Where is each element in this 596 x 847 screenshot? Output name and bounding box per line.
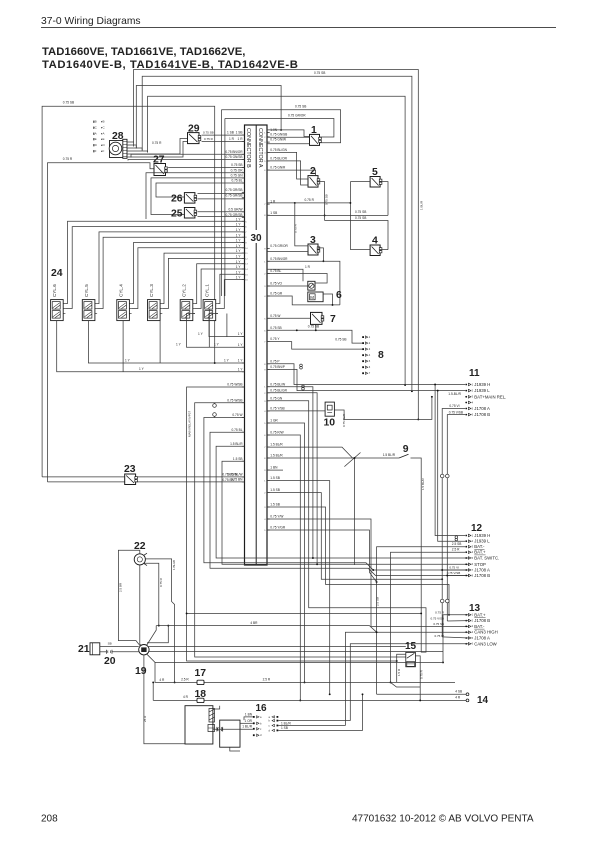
wire Y/SB to 10 [267, 410, 325, 412]
injector return wires 1 Y [209, 314, 245, 337]
pin 16 left 4 [253, 734, 255, 736]
svg-text:16: 16 [256, 703, 268, 714]
svg-text:TAD1660VE, TAD1661VE, TAD1662V: TAD1660VE, TAD1661VE, TAD1662VE, [42, 46, 245, 58]
wire GN down [267, 401, 426, 652]
wire to 5 from R bus [350, 181, 370, 183]
wire to 4 from R bus [350, 249, 370, 251]
pin 11-4 nc [465, 400, 473, 404]
svg-text:1 R: 1 R [238, 137, 244, 141]
pin 11-3 BAT+MAIN REL. [465, 394, 506, 399]
wire starter to relay 15 upper [148, 646, 406, 648]
svg-text:0.75 GR/SB: 0.75 GR/SB [225, 188, 242, 192]
injector cross links [159, 321, 161, 363]
wire 0.75 R X28 to fuse 29 [127, 142, 188, 158]
svg-text:J1708 A: J1708 A [474, 636, 490, 641]
svg-text:BAT+MAIN REL.: BAT+MAIN REL. [474, 394, 506, 399]
svg-text:1 SB: 1 SB [236, 131, 243, 135]
wire 1.5 SB c down [267, 507, 449, 615]
wire 0.75 BL [210, 432, 469, 575]
wire R bus vertical [349, 182, 351, 250]
svg-text:0.75 BL/GN: 0.75 BL/GN [270, 148, 287, 152]
svg-text:0.75 SB: 0.75 SB [324, 194, 328, 205]
pin 13-2 [465, 618, 490, 623]
svg-text:1.5 SB: 1.5 SB [233, 457, 243, 461]
wire starter to fuse18 [152, 682, 154, 700]
splice pair J1708 [440, 474, 444, 478]
svg-text:▸E: ▸E [101, 137, 105, 141]
svg-text:4 R: 4 R [183, 695, 189, 699]
twisted pair symbol upper [300, 364, 303, 367]
svg-text:M: M [310, 295, 314, 300]
wire 0.75 P to J1939 H [267, 364, 465, 385]
wire 1.5 BL/R down [216, 446, 469, 558]
wire Y/GR down [267, 530, 377, 582]
svg-text:1 BL/R: 1 BL/R [419, 200, 423, 210]
wire 1 BN stub [267, 469, 283, 471]
svg-text:0.75 R: 0.75 R [294, 223, 298, 233]
svg-text:0.75 V/SB: 0.75 V/SB [449, 410, 463, 414]
svg-text:BAT.+: BAT.+ [474, 550, 486, 555]
svg-text:24: 24 [51, 268, 63, 279]
svg-text:0.75 BL: 0.75 BL [232, 179, 243, 183]
svg-text:J1708 B: J1708 B [474, 412, 490, 417]
svg-text:CYL.1: CYL.1 [205, 284, 210, 297]
svg-text:1 SB: 1 SB [270, 211, 277, 215]
svg-text:1.5 BL/R: 1.5 BL/R [270, 443, 283, 447]
wire R/W down [267, 435, 300, 700]
wire 0.75 W [204, 418, 469, 571]
svg-text:0.75 R: 0.75 R [435, 611, 445, 615]
svg-text:CYL.3: CYL.3 [149, 284, 154, 297]
svg-text:1.5 BL/R: 1.5 BL/R [230, 442, 243, 446]
svg-text:0.75 R: 0.75 R [63, 157, 73, 161]
svg-text:0.75 BN: 0.75 BN [222, 478, 234, 482]
nested loop wire R3 to 1.0N [136, 86, 281, 149]
svg-text:▸A: ▸A [101, 131, 105, 135]
svg-text:0.75 GN/SB: 0.75 GN/SB [225, 155, 242, 159]
wire J1708B to 13 [447, 620, 469, 622]
svg-text:2.5 SB: 2.5 SB [452, 542, 462, 546]
connector A pin ticks and wire labels [264, 128, 288, 532]
svg-text:STOP: STOP [474, 562, 486, 567]
svg-text:CAN3 HIGH: CAN3 HIGH [474, 630, 497, 635]
wire 0.75 SB from 27 [168, 167, 244, 169]
svg-text:0.75 GN/R: 0.75 GN/R [270, 166, 286, 170]
svg-text:0.75 SB: 0.75 SB [63, 101, 74, 105]
svg-text:0.75 V/SB: 0.75 V/SB [430, 616, 444, 620]
nested loop wire R4 to J1939 H [148, 96, 406, 385]
svg-text:0.75 BL: 0.75 BL [232, 428, 243, 432]
svg-text:0.75 W/SB: 0.75 W/SB [227, 383, 242, 387]
svg-text:0.75 BN/GR: 0.75 BN/GR [270, 257, 288, 261]
svg-text:0.75 BL/OR: 0.75 BL/OR [270, 157, 287, 161]
svg-text:1.5 BL/R: 1.5 BL/R [383, 453, 396, 457]
svg-text:0.75 R: 0.75 R [152, 141, 162, 145]
wire GR/OR to 3 [267, 251, 308, 253]
svg-text:1 SB: 1 SB [281, 726, 288, 730]
wires 25 to connector [198, 211, 245, 213]
wire 0.75 BL to 6 [267, 274, 327, 284]
svg-text:J1939 L: J1939 L [474, 388, 490, 393]
wire BL/OR to 2 [267, 161, 308, 185]
wire 22 down to starter [140, 565, 142, 647]
svg-text:▮A: ▮A [93, 131, 97, 135]
svg-text:BAT.-: BAT.- [474, 544, 485, 549]
wire BL/GR down [267, 393, 317, 565]
svg-text:0.75 SB: 0.75 SB [355, 210, 366, 214]
svg-text:1.5 BL/R: 1.5 BL/R [270, 454, 283, 458]
wire 0.75 OR [146, 173, 245, 219]
wire from 7 bottom [315, 324, 317, 330]
svg-text:0.75 OR: 0.75 OR [231, 168, 244, 172]
svg-text:CYL.5: CYL.5 [84, 284, 89, 297]
pin 16 left 1 [253, 716, 255, 718]
inline connector pair [217, 727, 223, 732]
svg-text:0.75 VI: 0.75 VI [449, 404, 459, 408]
wire 1 GR down [267, 423, 305, 682]
wire 1.5 SB a down [267, 481, 330, 695]
pin 12-5 [465, 556, 499, 561]
svg-text:0.5 GR/W: 0.5 GR/W [229, 207, 243, 211]
svg-text:8: 8 [378, 350, 384, 361]
svg-text:17: 17 [195, 668, 207, 679]
wires heater internal [213, 706, 220, 709]
svg-text:1 BL/R: 1 BL/R [281, 721, 291, 725]
twist at 12 [455, 536, 458, 539]
svg-text:25: 25 [171, 209, 183, 220]
wire 0.75 BN/P to J1939 L [267, 369, 465, 390]
svg-text:J1939 H: J1939 H [474, 382, 490, 387]
wire BL/W down [267, 387, 313, 558]
wire 1.5 SB down [222, 461, 469, 564]
svg-text:4 BR: 4 BR [250, 621, 258, 625]
pin 16 left 3 [253, 728, 255, 730]
pin 11-1 J1939 H [465, 382, 490, 387]
header rule [41, 27, 556, 29]
wire 22 top housing [118, 550, 140, 646]
svg-text:1.5 BL/R: 1.5 BL/R [421, 477, 425, 490]
svg-text:2.5 BR: 2.5 BR [119, 582, 123, 592]
wire 1 SB bus [267, 214, 388, 216]
svg-text:J1708 B: J1708 B [474, 618, 490, 623]
nested loop wire R2 to J1939 L [142, 76, 412, 391]
x junction diagonals [344, 453, 360, 467]
pin 12-6 [465, 562, 486, 567]
svg-text:CONNECTOR A: CONNECTOR A [257, 128, 263, 168]
pin 11-2 J1939 L [465, 388, 490, 393]
svg-text:0.75 SB: 0.75 SB [270, 326, 281, 330]
svg-text:11: 11 [469, 368, 480, 379]
svg-text:MAIN RELAY/VP37: MAIN RELAY/VP37 [188, 411, 192, 437]
wires 16 left to heater relay [244, 717, 253, 720]
wire J1939 L drop to 12 [438, 391, 465, 542]
svg-text:1.5 SB: 1.5 SB [270, 476, 280, 480]
svg-text:0.75 BN/OR: 0.75 BN/OR [225, 150, 243, 154]
label 30 [247, 230, 265, 243]
wire from 3 right [318, 248, 323, 261]
svg-text:CYL.6: CYL.6 [52, 284, 57, 297]
svg-text:0.75 GN/W: 0.75 GN/W [270, 138, 286, 142]
svg-text:10: 10 [324, 418, 336, 429]
svg-text:▸B: ▸B [101, 120, 105, 124]
svg-text:CONNECTOR B: CONNECTOR B [245, 128, 251, 168]
wire starter right to 662 [147, 654, 444, 663]
svg-text:0.75 Y/GR: 0.75 Y/GR [270, 526, 286, 530]
pin 12-4 [465, 550, 486, 555]
svg-text:1 R: 1 R [229, 137, 235, 141]
pin 12-7 [465, 568, 490, 573]
preheater element [185, 706, 215, 744]
svg-text:1 BN: 1 BN [270, 466, 278, 470]
connector B pin ticks and wire labels [225, 131, 248, 482]
svg-text:1 BN: 1 BN [245, 713, 253, 717]
wire 0.75 W/SB to main relay [187, 387, 397, 661]
wire GN/R to 2 top [267, 170, 316, 176]
wires J1708 to 12 [442, 569, 465, 571]
wire 1.5 SB b down [267, 493, 442, 580]
wires 26 to connector [198, 193, 245, 195]
wires from X28 to loops [127, 141, 134, 143]
svg-text:0.75 P: 0.75 P [270, 359, 279, 363]
svg-text:▮E: ▮E [93, 137, 97, 141]
injector supply wires 1 Y [65, 221, 244, 308]
svg-text:0.75 BN/P: 0.75 BN/P [270, 365, 285, 369]
svg-text:0.75 R: 0.75 R [305, 198, 315, 202]
wire 4 SB to 14 [377, 693, 466, 695]
svg-text:0.75 SB: 0.75 SB [231, 163, 242, 167]
wire J1708 B continue [446, 478, 448, 621]
svg-text:2.5 R: 2.5 R [452, 547, 460, 551]
wire BN/GR [267, 261, 340, 305]
pin 12-1 [465, 533, 490, 538]
svg-text:1 R: 1 R [305, 265, 311, 269]
svg-text:0.75 GN/SB: 0.75 GN/SB [270, 133, 287, 137]
svg-text:BAT.-: BAT.- [474, 624, 485, 629]
wire 1.5 BL/R first [267, 447, 353, 458]
svg-text:0.75 SB: 0.75 SB [335, 337, 346, 341]
wire Y/W to 13 BAT- [267, 519, 469, 626]
pin 13-1 [465, 612, 486, 617]
svg-text:CYL.2: CYL.2 [182, 284, 187, 297]
wires to 1 [267, 130, 310, 137]
svg-text:0.75 R: 0.75 R [204, 137, 214, 141]
splice pair on W/SB [213, 404, 217, 408]
svg-text:1 GR: 1 GR [270, 419, 278, 423]
svg-text:0.75 GR: 0.75 GR [270, 292, 283, 296]
pin 13-5 [465, 636, 490, 641]
wire CAN3 LOW from 16 [350, 644, 469, 721]
pin 11-6 J1708 B [465, 412, 490, 417]
svg-text:20: 20 [104, 656, 116, 667]
relay 15 enclosure wire [391, 682, 421, 687]
svg-text:0.75 Y: 0.75 Y [270, 337, 280, 341]
svg-text:0.75 SB: 0.75 SB [203, 131, 214, 135]
wire 0.75 VI from 11 down [442, 409, 465, 475]
svg-text:0.75 GN: 0.75 GN [270, 396, 283, 400]
svg-text:1 BL/R: 1 BL/R [242, 725, 252, 729]
svg-text:0.75 SB: 0.75 SB [433, 622, 444, 626]
connector X28 pin labels [93, 120, 106, 154]
svg-text:0.75 SB: 0.75 SB [308, 325, 319, 329]
svg-text:14: 14 [477, 695, 489, 706]
svg-text:J1939 L: J1939 L [474, 539, 490, 544]
wire 4 R to 14 [153, 699, 466, 701]
svg-text:J1939 H: J1939 H [474, 533, 490, 538]
wire 0.75 GN to 25 [151, 178, 245, 215]
svg-text:21: 21 [78, 644, 90, 655]
wire 0.75 BL to 26 [156, 183, 245, 197]
svg-text:1.5 SB: 1.5 SB [270, 488, 280, 492]
wire from 4 right [380, 249, 388, 251]
svg-text:1 BL/W: 1 BL/W [172, 560, 176, 570]
svg-text:23: 23 [124, 464, 136, 475]
svg-text:0.75 BL/GR: 0.75 BL/GR [270, 388, 287, 392]
wire vertical 224.9 [224, 119, 226, 297]
svg-text:1.5-BL/R: 1.5-BL/R [448, 392, 461, 396]
svg-text:0.75 BL/W: 0.75 BL/W [270, 382, 285, 386]
svg-text:0.75 Y/SB: 0.75 Y/SB [270, 407, 284, 411]
svg-text:0.75 W/SB: 0.75 W/SB [227, 398, 242, 402]
svg-text:▸F: ▸F [101, 149, 105, 153]
pin 13-6 [465, 641, 497, 646]
pin 13-3 [465, 624, 485, 629]
svg-text:0.75 Y/W: 0.75 Y/W [270, 515, 283, 519]
wire 0.75 W/SB 2 [195, 403, 406, 657]
svg-text:CYL.4: CYL.4 [118, 284, 123, 297]
wires BN/OR GN/SB to left [131, 154, 245, 157]
svg-text:0.75 SB: 0.75 SB [355, 216, 366, 220]
wire J1939 H drop to 12 [435, 385, 465, 536]
wire J1708A to 13 [442, 637, 469, 638]
svg-text:4 R: 4 R [455, 696, 461, 700]
wire 6 return [323, 294, 332, 305]
splice pair below 12 [440, 599, 444, 603]
wire J1708 A continue [441, 478, 443, 637]
svg-text:0.75 GR/SB: 0.75 GR/SB [225, 193, 242, 197]
svg-text:J1708 A: J1708 A [474, 406, 490, 411]
svg-text:19: 19 [135, 666, 147, 677]
wire vertical to cyl zone [220, 110, 222, 296]
wire VO to 6 [267, 285, 308, 287]
svg-text:1 OR: 1 OR [245, 719, 253, 723]
svg-text:9: 9 [403, 444, 409, 455]
svg-text:▮B: ▮B [93, 120, 97, 124]
svg-text:6: 6 [336, 290, 342, 301]
svg-text:0.75 V/SB: 0.75 V/SB [447, 571, 461, 575]
svg-text:SB: SB [108, 642, 112, 646]
svg-text:0.75 R: 0.75 R [159, 577, 163, 587]
wire y613 link [187, 612, 422, 614]
wire 0.75 V/SB from 11 down [447, 415, 465, 475]
svg-text:0.75 SB: 0.75 SB [314, 71, 325, 75]
svg-text:0.75 VO: 0.75 VO [270, 282, 282, 286]
svg-text:26: 26 [171, 194, 183, 205]
svg-text:4 SB: 4 SB [455, 690, 462, 694]
svg-text:▮F: ▮F [93, 149, 97, 153]
ECU connector block 30 [245, 125, 268, 565]
wire 16 b right [278, 720, 350, 722]
svg-text:1.5 R: 1.5 R [397, 668, 401, 676]
pin 12-8 [465, 573, 490, 578]
twisted pair symbol at 11 [302, 385, 305, 388]
svg-text:2.5 SB: 2.5 SB [376, 597, 380, 606]
wire 19 top right link [147, 626, 168, 643]
svg-text:0.75 BL/W: 0.75 BL/W [222, 472, 237, 476]
wire BL/GN to 2 [267, 152, 308, 179]
svg-text:37-0 Wiring Diagrams: 37-0 Wiring Diagrams [41, 16, 141, 27]
pin 13-4 [465, 630, 497, 635]
svg-text:1.5 SB: 1.5 SB [270, 503, 280, 507]
pin 12-2 [465, 539, 490, 544]
relay box at 16 [220, 720, 240, 747]
svg-text:2.5 R: 2.5 R [181, 677, 189, 681]
svg-text:15: 15 [405, 641, 417, 652]
starter lever diagonal [147, 626, 157, 646]
wire GR to 6 loop [267, 296, 340, 305]
wire W to 7 [267, 317, 311, 319]
svg-text:J1708 A: J1708 A [474, 568, 490, 573]
svg-text:1 SB: 1 SB [227, 131, 234, 135]
svg-text:47701632 10-2012 © AB VOLVO P: 47701632 10-2012 © AB VOLVO PENTA [352, 814, 534, 825]
svg-text:BAT. SWITC.: BAT. SWITC. [474, 556, 499, 561]
svg-text:BAT.+: BAT.+ [474, 612, 486, 617]
pin 12-3 [465, 544, 485, 549]
relay box bottom wire [230, 747, 240, 751]
svg-text:0.75 BL: 0.75 BL [270, 269, 281, 273]
pin 16 left 2 [253, 722, 255, 724]
svg-text:0.75 GR/OR: 0.75 GR/OR [288, 113, 306, 117]
svg-text:0.75 W: 0.75 W [270, 314, 280, 318]
wire 0.75 R to 13 BAT+ [443, 615, 469, 663]
svg-text:30: 30 [250, 233, 262, 244]
svg-text:0.75 VI: 0.75 VI [449, 565, 459, 569]
wire CAN3 HIGH from 16 [345, 632, 468, 725]
svg-text:7: 7 [330, 314, 336, 325]
svg-text:J1708 B: J1708 B [474, 573, 490, 578]
wire starter to 13 BAT+ lower [149, 651, 443, 653]
svg-text:2.5 R: 2.5 R [263, 677, 271, 681]
svg-text:0.75 GN: 0.75 GN [231, 174, 244, 178]
svg-text:0.75 GR/OR: 0.75 GR/OR [270, 244, 288, 248]
pin 11-5 J1708 A [465, 406, 490, 411]
svg-text:208: 208 [41, 814, 58, 825]
svg-text:CAN3 LOW: CAN3 LOW [474, 641, 497, 646]
svg-text:0.75 R/W: 0.75 R/W [270, 431, 283, 435]
svg-text:4 R: 4 R [159, 678, 165, 682]
svg-text:0.75 SB: 0.75 SB [295, 104, 306, 108]
svg-text:0.75 W: 0.75 W [232, 413, 242, 417]
